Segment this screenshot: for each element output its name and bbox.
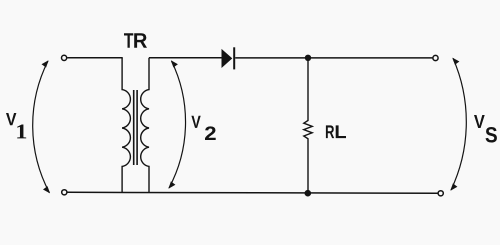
label VS [474,115,485,128]
label RL [326,125,334,138]
transformer TR core lines [133,90,135,165]
terminal bottom-left [62,190,67,195]
V2 measurement arc with arrowheads [169,61,186,188]
transformer TR secondary winding with leads [141,58,149,193]
transformer TR primary winding with leads [122,58,130,193]
label TR [124,33,133,47]
label V2 [191,116,200,128]
wire bottom [67,192,437,193]
wire top left segment [67,57,123,59]
wire transformer to diode [149,57,222,59]
VS measurement arc with arrowheads [451,58,466,190]
junction node bottom [305,190,312,197]
wire diode to right terminal [235,57,433,59]
terminal top-right [433,55,438,60]
junction node top [305,55,311,61]
terminal top-left [62,55,67,60]
V1 measurement arc with arrowheads [33,61,50,193]
terminal bottom-right [438,191,443,196]
label V1 [6,113,16,125]
resistor RL [304,58,312,193]
diode [222,49,233,68]
